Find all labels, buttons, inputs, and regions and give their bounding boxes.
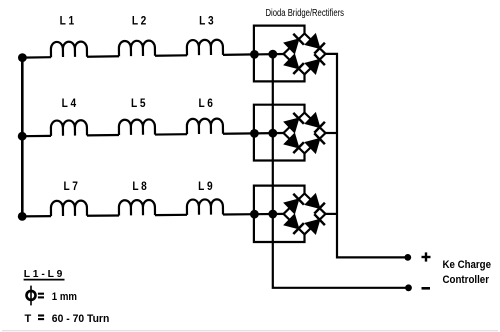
- note heading underline: [24, 279, 65, 281]
- inductor L3: [187, 40, 223, 56]
- wire row2 seg4 to bridge: [223, 132, 283, 135]
- bridge rectifier U3 diamond: [284, 194, 326, 235]
- plus sign: [422, 252, 431, 261]
- svg-text:L 8: L 8: [132, 181, 147, 193]
- svg-text:L 6: L 6: [198, 98, 213, 110]
- node: bridge U1 rail junction: [268, 50, 277, 59]
- svg-text:L 7: L 7: [63, 181, 78, 193]
- svg-text:L 5: L 5: [131, 98, 146, 110]
- bridge rectifier U1 diamond: [284, 34, 326, 75]
- phase row 1: wire + inductors L1 L2 L3: [22, 39, 284, 58]
- diode U2 lower-left: [284, 133, 304, 153]
- wire row3 seg3: [155, 214, 187, 217]
- svg-text:L 1: L 1: [60, 15, 75, 27]
- phase row 3: wire + inductors L7 L8 L9: [22, 199, 285, 217]
- node: bridge U3 rail junction: [268, 210, 277, 219]
- equals sign (T row): [38, 316, 44, 320]
- node: star point row2: [18, 132, 27, 141]
- node: bridge U3 box junction: [250, 210, 259, 219]
- inductor L9: [187, 199, 223, 215]
- diode U2 upper-left: [284, 113, 304, 133]
- wire row3 seg2: [87, 214, 119, 217]
- svg-text:T: T: [25, 313, 32, 325]
- diode U2 upper-right: [305, 113, 325, 133]
- inductor L7: [51, 201, 87, 217]
- wire row2 lead: [22, 135, 51, 138]
- wire: bridge U2 output stub: [326, 132, 338, 134]
- wire row2 seg3: [155, 133, 187, 136]
- minus sign: [422, 287, 431, 290]
- wire row1 seg2: [87, 55, 119, 58]
- svg-text:L 4: L 4: [62, 98, 77, 110]
- terminal: minus output: [405, 284, 412, 291]
- diode U1 upper-left: [284, 34, 304, 54]
- svg-text:L 2: L 2: [132, 15, 147, 27]
- wire row2 seg2: [87, 134, 119, 137]
- diode U3 upper-right: [305, 194, 325, 214]
- node: star point row1: [18, 53, 27, 62]
- wire row3 seg4 to bridge: [223, 213, 285, 216]
- svg-text:L 9: L 9: [198, 181, 213, 193]
- svg-text:L 3: L 3: [199, 15, 214, 27]
- inductor L2: [119, 41, 155, 57]
- wire row1 seg3: [155, 54, 187, 57]
- equals sign (phi row): [38, 294, 44, 298]
- wire row1 seg4 to bridge: [223, 53, 284, 56]
- diode U3 lower-left: [284, 214, 304, 234]
- inductor L8: [119, 200, 155, 216]
- wire: bridge U3 output stub: [326, 213, 338, 215]
- wire: positive bus down to plus terminal: [326, 54, 408, 258]
- bridge rectifier U3 box: [254, 186, 305, 242]
- svg-text:1 mm: 1 mm: [52, 291, 77, 303]
- diode U3 upper-left: [284, 194, 304, 214]
- inductor L6: [187, 119, 223, 135]
- diode U3 lower-right: [305, 214, 325, 234]
- phase row 2: wire + inductors L4 L5 L6: [22, 118, 283, 136]
- bridge rectifier U1 box: [254, 26, 305, 82]
- wire: negative rail down to minus terminal: [273, 54, 409, 288]
- wire: left star bus: [21, 58, 24, 217]
- bridge rectifier U2 diamond: [284, 113, 326, 154]
- svg-text:Dioda Bridge/Rectifiers: Dioda Bridge/Rectifiers: [266, 8, 345, 19]
- inductor L4: [51, 120, 87, 136]
- svg-text:Ke Charge: Ke Charge: [443, 259, 492, 271]
- diode U2 lower-right: [305, 133, 325, 153]
- inductor L5: [119, 119, 155, 135]
- terminal: plus output: [404, 254, 411, 261]
- node: bridge U1 box junction: [250, 50, 259, 59]
- diode U1 lower-right: [305, 54, 325, 74]
- svg-text:60 - 70 Turn: 60 - 70 Turn: [52, 313, 110, 325]
- svg-text:Controller: Controller: [443, 274, 490, 286]
- bridge rectifier U2 box: [254, 105, 305, 161]
- svg-text:L 1 - L 9: L 1 - L 9: [24, 268, 63, 280]
- node: bridge U2 rail junction: [268, 129, 277, 138]
- diode U1 upper-right: [305, 34, 325, 54]
- node: bridge U2 box junction: [250, 129, 259, 138]
- diameter symbol phi: [27, 286, 36, 306]
- inductor L1: [51, 42, 87, 58]
- wire row1 lead: [22, 56, 51, 59]
- diode U1 lower-left: [284, 54, 304, 74]
- node: star point row3: [18, 212, 27, 221]
- wire row3 lead: [22, 215, 51, 217]
